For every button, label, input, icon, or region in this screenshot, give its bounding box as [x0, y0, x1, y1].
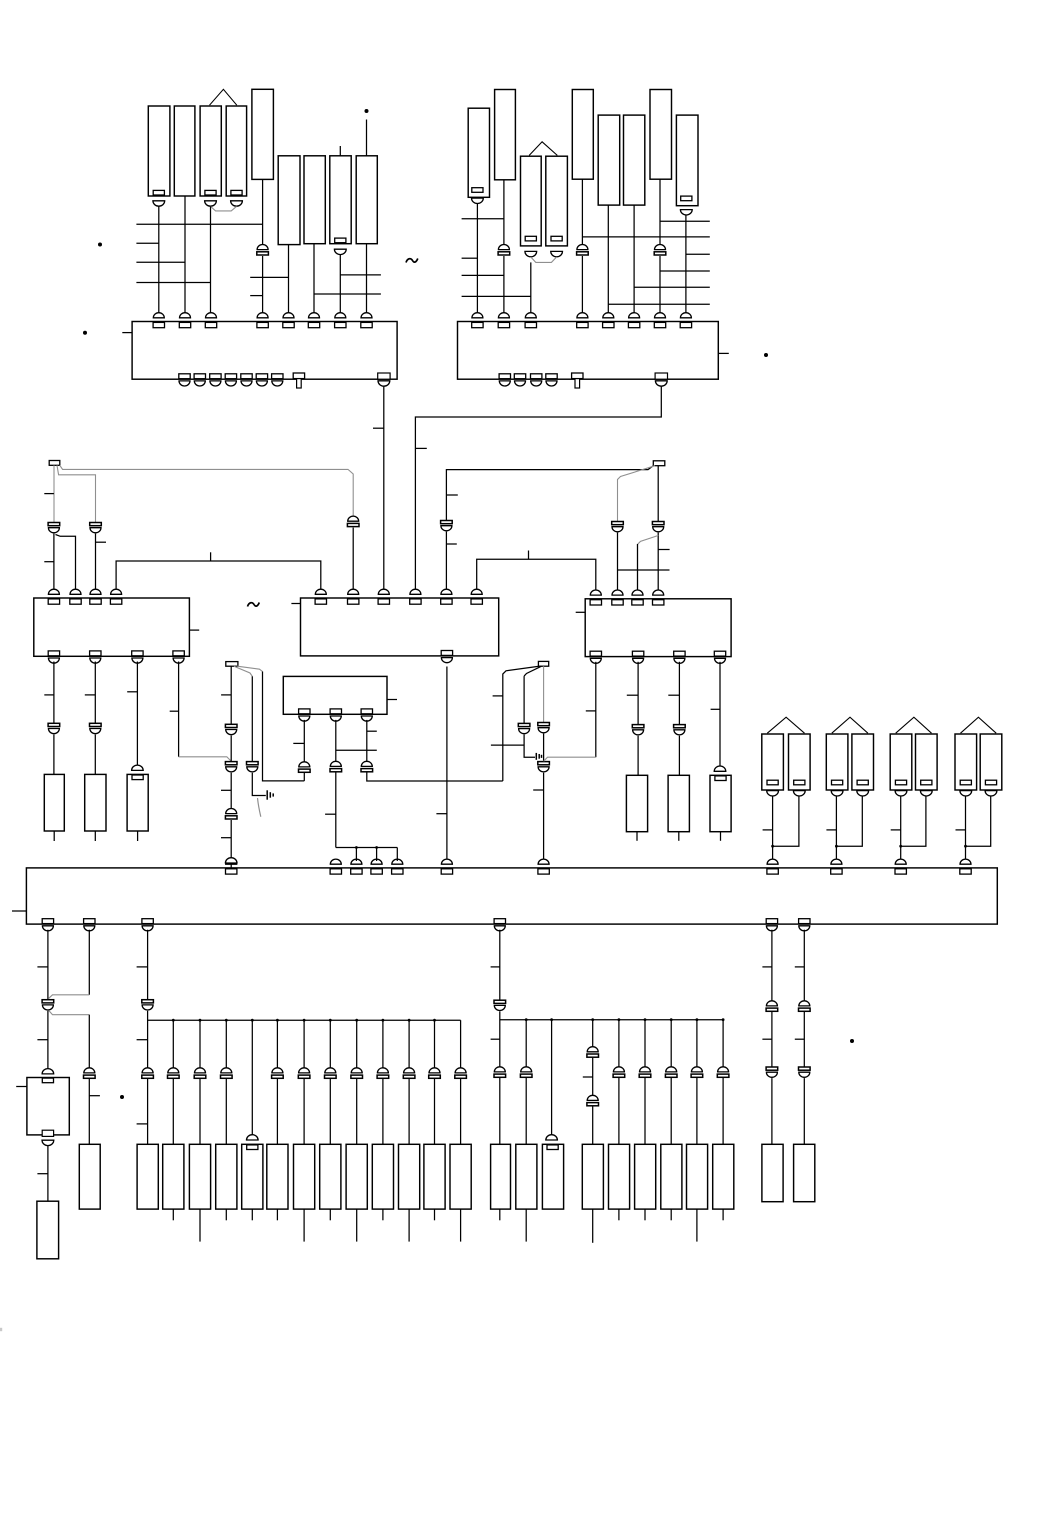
wire E1.1 down — [47, 930, 49, 1000]
C2 top pin 2 — [348, 589, 359, 604]
speck dot right of P2 — [764, 353, 768, 357]
wire L4 C2 pin5 to X2 — [446, 466, 653, 521]
speck dot left lower — [83, 331, 87, 335]
wire C1.3 down — [136, 662, 138, 766]
C2 top pin 5 — [441, 589, 452, 604]
wire bus1 col5 lower — [276, 1079, 278, 1144]
E1 top pin 7 — [538, 859, 549, 874]
E1 bottom pin 2 — [84, 919, 95, 931]
wire K3 to P1 pin3 — [210, 206, 212, 314]
wire C1.1 down — [53, 662, 55, 724]
inline connector X4-c2 — [538, 762, 550, 772]
P2 output pin right — [655, 373, 667, 386]
connector cup under S2b — [857, 791, 869, 796]
plug dome on R3 — [132, 765, 144, 770]
inline connector on K18 wire — [654, 245, 666, 256]
E1 top pin 10 — [895, 859, 906, 874]
load resistor G7 — [320, 1144, 341, 1209]
tick X4-c — [533, 789, 543, 791]
load resistor G11 — [424, 1144, 445, 1209]
inline connector X1-b — [90, 523, 102, 533]
inline connector J2a — [799, 1001, 811, 1011]
wire bus1 col10 lower — [408, 1079, 410, 1144]
C1 bottom pin 2 — [90, 651, 101, 663]
wire bus1 col11 upper — [434, 1020, 436, 1068]
terminal notch S3b — [921, 780, 932, 785]
wire K16 to P2 pin5 — [607, 205, 609, 314]
jumper E1.2 lower — [49, 1011, 90, 1015]
tick on P1-C2 wire — [373, 427, 384, 429]
wire X3-c branch — [237, 666, 262, 671]
wire K18 to P2 pin7 — [659, 256, 661, 315]
junction dot bus2-8 — [722, 1018, 725, 1021]
wire D1.1 down — [303, 720, 305, 763]
C2 top pin 4 — [410, 589, 421, 604]
arrow marker over S2 — [832, 717, 868, 733]
component K6 (block A6) — [278, 156, 300, 245]
wire X3-a mid3 — [230, 820, 232, 861]
wire bus1 col4 — [251, 1020, 253, 1134]
tick E1.1 — [37, 966, 48, 968]
tick C1.4 — [170, 710, 179, 712]
tick X3-a lower — [221, 837, 231, 839]
load resistor G9 — [372, 1144, 393, 1209]
fan wire X1-a — [53, 465, 55, 523]
tick E1.2 — [89, 1095, 100, 1097]
P2 top pin 6 — [628, 313, 639, 328]
terminal notch K1 — [153, 190, 164, 195]
stub under R2 — [94, 831, 96, 841]
wire X4-b branch — [524, 666, 541, 676]
wire E1.2 down — [88, 930, 90, 995]
P1 top pin 1 — [153, 313, 164, 328]
tick E1.3 mid — [137, 1039, 148, 1041]
C3 top pin 4 — [653, 590, 664, 605]
junction dot bus2-4 — [618, 1018, 621, 1021]
stub under G7 — [329, 1209, 331, 1220]
load resistor H6 — [635, 1144, 656, 1209]
P1 bottom pin 5 — [241, 374, 252, 386]
speck dot bottom-left — [120, 1095, 124, 1099]
connector cup under K4 — [231, 201, 243, 206]
load resistor H1 — [491, 1144, 511, 1209]
wire bus2 col6 lower — [670, 1078, 672, 1144]
arrow marker over K3/K4 — [210, 89, 237, 105]
C1 bottom pin 4 — [173, 651, 184, 663]
load resistor H4 — [582, 1144, 603, 1209]
component K4 (relay block A4) — [226, 106, 246, 196]
E1 top pin 11 — [960, 859, 971, 874]
junction dot bus1-6 — [303, 1019, 306, 1022]
bus wire B-1 — [462, 218, 504, 220]
P1 top pin 7 — [335, 313, 346, 328]
wire bus1 col5 upper — [276, 1020, 278, 1068]
inline connector H7 — [665, 1067, 677, 1077]
E1 top pin 6 — [441, 859, 452, 874]
arrow marker over S3 — [896, 717, 932, 733]
stub left of E1 — [12, 910, 26, 912]
P2 top pin 5 — [603, 313, 614, 328]
load resistor R3 — [127, 774, 148, 831]
stub under H6 — [644, 1209, 646, 1220]
wire bus1 col1 upper — [172, 1020, 174, 1068]
connector block X1 — [49, 461, 60, 466]
module box D1 — [283, 676, 387, 714]
terminal notch S3a — [895, 780, 906, 785]
wire E1.4 to H1 — [499, 1078, 501, 1144]
junction dot S4 — [964, 845, 967, 848]
wire bus1 col2 lower — [199, 1079, 201, 1144]
load resistor G8 — [346, 1144, 367, 1209]
ground G1 bar1 — [266, 790, 268, 799]
junction dot S3 — [899, 845, 902, 848]
wire K19 to P2 pin8 — [685, 215, 687, 314]
terminal notch K3 — [205, 190, 216, 195]
arrow marker over S1 — [767, 717, 804, 733]
junction dot bus2-1 — [525, 1018, 528, 1021]
jumper link K13-K14 cups — [531, 257, 557, 262]
inline connector end col — [455, 1068, 467, 1078]
inline connector col3 — [221, 1068, 233, 1078]
load resistor G5 — [267, 1144, 288, 1209]
wire S4a to E — [965, 796, 967, 861]
wire bus2 col3 upper — [592, 1020, 594, 1048]
link wire B-8 — [660, 270, 710, 272]
wire K5 down — [262, 179, 264, 244]
C1 top pin 2 — [70, 589, 81, 604]
P1 output pin right — [378, 373, 390, 386]
wire bus2 col5 lower — [644, 1078, 646, 1144]
load resistor H9 — [713, 1144, 734, 1209]
arrow marker over K13/K14 — [529, 142, 557, 156]
inline connector X1-a — [48, 523, 60, 533]
P2 top pin 2 — [498, 313, 509, 328]
stub under R1 — [53, 831, 55, 841]
terminal notch F1 top — [42, 1078, 53, 1083]
continuation tilde A-B — [406, 259, 418, 263]
sensor S2a — [826, 734, 848, 790]
junction dot bus1-7 — [329, 1019, 332, 1022]
E1 bottom pin 6 — [799, 919, 810, 931]
connector cup under K14 — [551, 251, 563, 256]
link wire B-6 — [582, 236, 709, 238]
tick C3.4 — [711, 708, 720, 710]
inline connector H9 — [717, 1067, 729, 1077]
terminal notch S4b — [985, 780, 996, 785]
connector cup under S1a — [767, 791, 779, 796]
wire bus1 col7 lower — [329, 1079, 331, 1144]
component K18 (block B8) — [650, 90, 672, 180]
load resistor F2 — [37, 1201, 59, 1259]
inline connector E1.4b — [494, 1067, 506, 1077]
wire bus1 col3 upper — [225, 1020, 227, 1068]
load resistor R2 — [85, 774, 106, 831]
wire K15 to P2 pin4 — [581, 256, 583, 315]
branch wire to C1 pin2 — [56, 535, 76, 591]
terminal notch F1 bottom — [42, 1130, 53, 1136]
component K17 (block B7) — [624, 115, 645, 205]
E1 top pin 8 — [767, 859, 778, 874]
C1 bottom pin 3 — [132, 651, 143, 663]
wire bus1 col9 lower — [382, 1079, 384, 1144]
inline connector X2-a — [612, 522, 624, 532]
P2 top pin 8 — [680, 313, 691, 328]
load resistor H3 — [542, 1144, 563, 1209]
tick E1.1 mid — [37, 1039, 48, 1041]
C2 top pin 1 — [315, 589, 326, 604]
terminal notch S1b — [794, 780, 805, 785]
tick C1 wire3 — [96, 541, 107, 543]
terminal notch S2a — [832, 780, 843, 785]
stub above K9 — [366, 120, 368, 156]
load resistor J2 — [794, 1144, 815, 1201]
inline connector X3-a3 — [225, 808, 237, 819]
stub left of C3 — [576, 611, 586, 613]
junction dot bus2-2 — [550, 1018, 553, 1021]
stub under G12 — [460, 1209, 462, 1242]
module box C1 — [34, 598, 190, 656]
tick S2a wire — [826, 829, 836, 831]
inline connector H4b — [587, 1095, 599, 1105]
tick C1.2 — [85, 694, 96, 696]
wire D1.1 tail — [303, 773, 305, 781]
terminal notch K4 — [231, 190, 242, 195]
C3 bottom pin 1 — [590, 651, 601, 663]
tick D1.3 — [367, 730, 377, 732]
tick E1.3 lower — [137, 1123, 148, 1125]
junction dot bus1-4 — [251, 1019, 254, 1022]
wire J1 lower — [771, 1078, 773, 1144]
connector cup under K11 — [472, 198, 484, 203]
tick C1 wire1 lower — [44, 561, 54, 563]
E1 bottom pin 4 — [494, 919, 505, 931]
wire P1 to C2 pin3 — [383, 387, 385, 591]
connector block X3 — [226, 662, 238, 667]
inline connector X2-b — [652, 522, 664, 532]
bus1 end column wire lower — [460, 1079, 462, 1144]
wire K12 down — [503, 180, 505, 245]
P1 bottom pin 2 — [194, 374, 205, 386]
wire bus2 col7 upper — [696, 1020, 698, 1067]
connector cup under S3b — [920, 791, 932, 796]
terminal notch R3 — [132, 775, 143, 780]
inline connector on K5 wire — [257, 245, 269, 256]
tick L4 drop lower — [446, 543, 456, 545]
stub right of P2 — [718, 352, 729, 354]
tick on P2-C2 wire — [415, 447, 426, 449]
wire X1-b to C1 pin3 — [95, 534, 97, 591]
wire J2 mid — [803, 1012, 805, 1067]
fan wire X1-c — [60, 465, 353, 516]
link wire B-9 — [634, 286, 710, 288]
P2 top pin 1 — [472, 313, 483, 328]
wire J1 mid — [771, 1012, 773, 1067]
P1 bottom pin 4 — [225, 374, 236, 386]
component K1 (relay block A1) — [148, 106, 170, 196]
E1 top pin 9 — [831, 859, 842, 874]
wire K11 to P2 pin1 — [476, 204, 478, 315]
C2 bottom pin — [441, 651, 452, 663]
P1 bottom tab — [293, 373, 304, 388]
wire bus1 col7 upper — [329, 1020, 331, 1068]
node dot above K9 — [365, 109, 369, 113]
D1 bottom pin 1 — [299, 709, 310, 721]
module box C3 — [585, 599, 731, 657]
load resistor R4 — [626, 775, 647, 831]
wire D1.2 to E bus — [335, 772, 337, 847]
stub above K8 — [339, 146, 341, 156]
wire D1.3 down — [366, 720, 368, 762]
wire C1.2 to R2 — [94, 734, 96, 774]
connector cup under K3 — [205, 201, 217, 206]
wire K6 to P1 pin5 — [288, 245, 290, 315]
plug dome on F1 — [42, 1069, 54, 1074]
terminal notch K8 — [335, 238, 346, 243]
fan wire X1-b — [57, 465, 96, 523]
wire X3-b to ground — [252, 773, 265, 796]
P2 bottom pin 3 — [531, 374, 542, 386]
tick D1.2 lower — [325, 813, 336, 815]
wire X1-c to C2 pin2 — [352, 528, 354, 591]
C3 top pin 2 — [612, 590, 623, 605]
inline connector J1a — [766, 1001, 778, 1011]
wire E1.1 mid — [47, 1011, 49, 1069]
component K8 (block A8) — [330, 156, 351, 244]
link wire A-5 — [250, 276, 288, 278]
tick E1.3 — [137, 966, 148, 968]
wire P2 to C2 pin4 — [415, 387, 661, 591]
component K3 (relay block A3) — [200, 106, 221, 196]
tick C3.2 — [627, 694, 638, 696]
E1 top pin 1 — [226, 859, 237, 874]
tick wire A-6 — [250, 295, 262, 297]
stub right of C1 — [189, 629, 199, 631]
connector cup under K8 — [334, 249, 346, 254]
stub under H9 — [722, 1209, 724, 1220]
bus wire B-3 — [462, 274, 504, 276]
inline connector J2b — [799, 1067, 811, 1077]
component K2 (relay block A2) — [174, 106, 195, 196]
link wire under X2 — [618, 569, 670, 571]
tick C3.1 — [586, 710, 596, 712]
wire bus1 col3 lower — [225, 1079, 227, 1144]
wire K18 down — [659, 179, 661, 244]
junction dot bus1-1 — [172, 1019, 175, 1022]
stub left of P1 — [122, 332, 132, 334]
riser wire 2 — [376, 848, 378, 862]
terminal notch K13 — [525, 236, 536, 241]
inline connector col11 — [429, 1068, 441, 1078]
inline connector col1 — [168, 1068, 180, 1078]
X3 column dome — [225, 858, 237, 863]
wire bus1 col8 upper — [356, 1020, 358, 1068]
component K19 (block B9) — [676, 115, 698, 206]
tick C1.3 — [127, 691, 137, 693]
wire X3-c down — [263, 672, 305, 781]
junction dot bus2-5 — [644, 1018, 647, 1021]
wire bus1 col6 upper — [303, 1020, 305, 1068]
junction dot bus2-7 — [696, 1018, 699, 1021]
wire K1 to P1 pin1 — [158, 206, 160, 314]
tick C3.3 — [668, 694, 679, 696]
connector cup under F1 — [42, 1140, 54, 1145]
connector block X4 — [538, 661, 548, 666]
plug dome on R6 — [714, 766, 726, 771]
ground G1 bar3 — [272, 793, 274, 796]
terminal notch S2b — [857, 780, 868, 785]
inline connector E1.2 — [84, 1068, 96, 1078]
component K11 (block B1) — [468, 108, 489, 197]
wire S2a to E — [835, 796, 837, 861]
wire L1 to C1 pin4 / C2 pin1 — [116, 561, 321, 591]
wire X3-a mid1 — [230, 735, 232, 761]
C3 bottom pin 2 — [632, 651, 643, 663]
stub under H4 — [592, 1209, 594, 1243]
junction dot S1 — [771, 845, 774, 848]
link wire B-5 — [660, 220, 710, 222]
wire F1 to F2 — [47, 1146, 49, 1201]
wire bus1 col8 lower — [356, 1079, 358, 1144]
P2 bottom pin 4 — [546, 374, 557, 386]
terminal notch S4a — [960, 780, 971, 785]
wire K17 to P2 pin6 — [633, 205, 635, 314]
terminal notch G4 — [247, 1145, 258, 1150]
load resistor J1 — [762, 1144, 783, 1201]
wire X4-c down — [543, 666, 545, 723]
terminal notch K11 — [472, 188, 483, 193]
tick C1 wire1 upper — [44, 493, 54, 495]
link wire A-7 — [340, 274, 381, 276]
wire E1.3 down — [147, 930, 149, 1000]
inline connector col7 — [325, 1068, 337, 1078]
wire S1b link — [773, 796, 799, 846]
junction dot bus2-3 — [591, 1018, 594, 1021]
junction dot bus1-8 — [355, 1019, 358, 1022]
P2 top pin 3 — [525, 313, 536, 328]
terminal notch K19 — [681, 196, 692, 201]
link wire A-8 — [314, 293, 381, 295]
load resistor H8 — [687, 1144, 708, 1209]
wire E1 to J2 upper — [803, 930, 805, 1002]
load resistor H7 — [661, 1144, 682, 1209]
X3 column tail — [230, 863, 232, 868]
sensor S2b — [852, 734, 874, 790]
stub under G3 — [225, 1209, 227, 1220]
stub under G2 — [199, 1209, 201, 1242]
inline connector col5 — [272, 1068, 284, 1078]
inline connector on K12 wire — [498, 245, 510, 256]
inline connector X3-a2 — [225, 762, 237, 772]
inline connector col10 — [403, 1068, 415, 1078]
inline connector H8 — [691, 1067, 703, 1077]
connector cup under K1 — [153, 201, 165, 206]
jumper E1.2 upper — [49, 995, 90, 999]
inline connector E1.3b — [142, 1068, 154, 1078]
D1 bottom pin 2 — [330, 709, 341, 721]
wire bus1 col2 upper — [199, 1020, 201, 1068]
stub right of D1 — [387, 699, 397, 701]
inline connector D1.2 — [330, 761, 342, 771]
riser wire 1 — [355, 848, 357, 862]
connector block X2 — [653, 461, 665, 466]
junction dot riser2 — [375, 846, 378, 849]
wire X3-b branch — [234, 666, 252, 676]
component K15 (block B5) — [572, 90, 593, 180]
junction dot bus1-10 — [408, 1019, 411, 1022]
ground G1 bar2 — [269, 792, 271, 798]
P1 top pin 2 — [179, 313, 190, 328]
bus wire A-4 — [136, 282, 210, 284]
